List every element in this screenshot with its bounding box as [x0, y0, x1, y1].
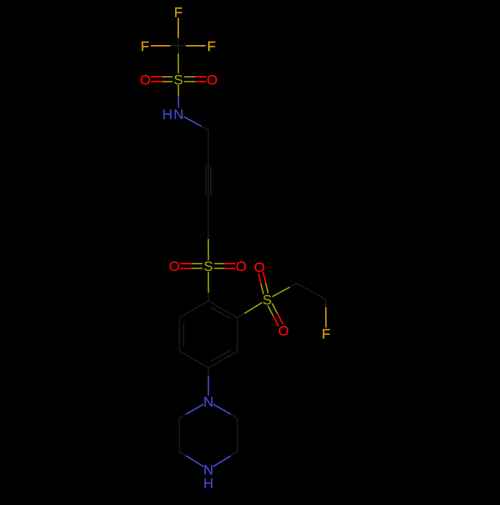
svg-text:H: H [203, 475, 213, 491]
svg-text:N: N [203, 394, 213, 410]
svg-text:N: N [173, 106, 183, 122]
svg-text:O: O [278, 322, 289, 338]
svg-text:O: O [207, 71, 218, 87]
svg-text:O: O [140, 71, 151, 87]
svg-text:H: H [162, 106, 172, 122]
svg-text:S: S [204, 258, 213, 274]
svg-text:O: O [169, 258, 180, 274]
svg-text:O: O [254, 259, 265, 275]
svg-text:S: S [174, 71, 183, 87]
svg-text:F: F [141, 38, 150, 54]
svg-text:O: O [236, 258, 247, 274]
svg-text:F: F [322, 325, 331, 341]
svg-text:S: S [263, 292, 272, 308]
svg-text:F: F [174, 4, 183, 20]
svg-text:F: F [207, 38, 216, 54]
